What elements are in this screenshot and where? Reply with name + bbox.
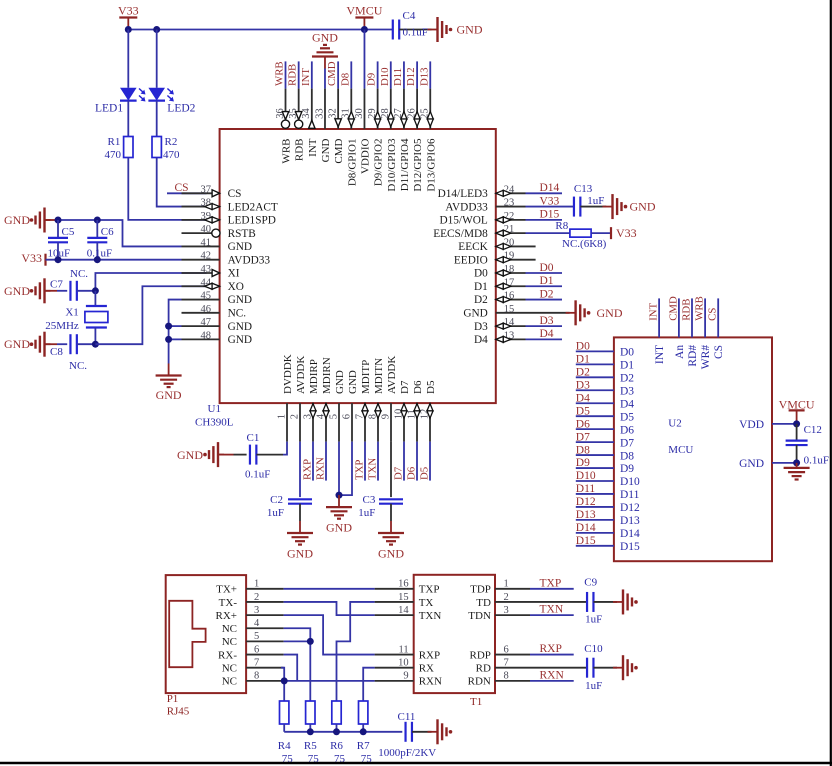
wire termination bus to C11: [284, 731, 402, 733]
svg-text:D9: D9: [366, 73, 378, 86]
svg-text:RJ45: RJ45: [167, 706, 190, 718]
svg-text:2: 2: [289, 414, 300, 419]
connector P1 RJ45 body: [166, 575, 246, 717]
svg-text:0.1uF: 0.1uF: [245, 469, 270, 481]
junction pin5/6 gnd: [336, 492, 343, 499]
svg-text:GND: GND: [287, 547, 313, 561]
svg-text:RX-: RX-: [218, 649, 237, 661]
junction pin47 gnd: [165, 323, 172, 330]
svg-text:LED1SPD: LED1SPD: [228, 215, 276, 227]
svg-text:RXP: RXP: [540, 643, 562, 655]
svg-text:RDP: RDP: [469, 649, 490, 661]
svg-text:D12: D12: [576, 496, 596, 508]
svg-text:C13: C13: [574, 183, 593, 195]
svg-text:0.1uF: 0.1uF: [403, 27, 428, 39]
svg-text:TXN: TXN: [419, 610, 442, 622]
node D7 (net label bottom): [392, 442, 404, 481]
node RXN (T1 out): [530, 669, 574, 681]
wire pin5 pin6 to GND: [339, 442, 352, 496]
node D5 (net label bottom): [418, 442, 430, 481]
ground GND (C12): [784, 463, 810, 480]
resistor R7: [357, 701, 372, 765]
svg-text:470: 470: [105, 149, 122, 161]
svg-text:RDB: RDB: [287, 64, 299, 86]
LED LED2: [148, 88, 195, 115]
junction VMCU/VDDIO: [361, 26, 368, 33]
junction U2 GND: [793, 459, 800, 466]
T1 right pin numbers: [504, 579, 509, 682]
wire RX+ to T1.11: [284, 615, 375, 654]
svg-text:NC: NC: [222, 663, 237, 675]
svg-text:D2: D2: [576, 367, 590, 379]
ground GND (right of C4): [428, 17, 483, 42]
U2 top pin names INT An RD# WR# CS: [654, 345, 725, 370]
svg-text:TDN: TDN: [468, 610, 491, 622]
LED LED1: [95, 88, 146, 115]
svg-text:NC.(6K8): NC.(6K8): [562, 238, 607, 250]
svg-text:TXP: TXP: [353, 460, 365, 480]
svg-text:D9: D9: [576, 457, 590, 469]
svg-text:LED2ACT: LED2ACT: [228, 201, 278, 213]
svg-text:C11: C11: [398, 711, 416, 723]
node D4 (net label right): [526, 328, 563, 340]
junction U2 VDD: [793, 420, 800, 427]
junction V33/LED1: [125, 26, 132, 33]
svg-text:32: 32: [327, 108, 338, 119]
svg-text:D13/GPIO6: D13/GPIO6: [425, 138, 437, 192]
ground GND (C10): [613, 655, 638, 680]
svg-text:D10/GPIO3: D10/GPIO3: [386, 138, 398, 192]
U1 right pin glyphs: [496, 190, 511, 342]
wire C8/X1 to pin44 XO: [95, 286, 206, 344]
svg-text:R7: R7: [357, 740, 370, 752]
svg-text:V33: V33: [118, 4, 139, 18]
svg-text:CH390L: CH390L: [195, 417, 234, 429]
MCU U2 body: [614, 337, 772, 561]
svg-text:T1: T1: [470, 696, 482, 708]
svg-text:D6: D6: [412, 380, 424, 394]
junction C6 bottom: [94, 256, 101, 263]
wire TX+ to T1.16: [284, 588, 375, 590]
junction C5 bottom: [55, 256, 62, 263]
power symbol V33 (R8): [611, 226, 637, 240]
svg-text:D15/WOL: D15/WOL: [439, 215, 487, 227]
node D14 (net label): [526, 182, 563, 194]
junction X1 top: [92, 287, 99, 294]
svg-text:D4: D4: [474, 334, 488, 346]
T1 right pin stubs: [495, 589, 530, 681]
wire P1.4/P1.5 to R5: [284, 628, 311, 701]
svg-text:C7: C7: [50, 278, 63, 290]
svg-text:INT: INT: [654, 345, 666, 364]
wire T1.15 center tap to R6: [337, 602, 375, 701]
svg-text:D14: D14: [620, 528, 640, 540]
svg-text:NC: NC: [222, 623, 237, 635]
U1 left pin numbers 37-48: [201, 184, 212, 341]
svg-text:GND: GND: [326, 521, 352, 535]
wire P1.7 to R4: [281, 668, 284, 701]
resistor R6: [330, 701, 345, 765]
U1 top pin names: [281, 138, 438, 192]
svg-text:U1: U1: [208, 403, 221, 415]
svg-text:D13: D13: [620, 515, 640, 527]
node RXN (net label): [314, 442, 326, 481]
node D15 (net label): [526, 209, 563, 221]
svg-text:D2: D2: [474, 294, 488, 306]
node RXP (net label): [301, 442, 313, 481]
U2 GND pin: [739, 458, 797, 470]
svg-text:CS: CS: [707, 308, 719, 321]
svg-text:C6: C6: [101, 226, 114, 238]
junction pin48 gnd: [165, 336, 172, 343]
svg-text:D5: D5: [425, 380, 437, 394]
svg-text:CS: CS: [713, 345, 725, 359]
svg-text:WRB: WRB: [274, 61, 286, 86]
P1 pin numbers 1-8: [254, 579, 260, 682]
T1 left pin names: [419, 584, 442, 688]
svg-text:C9: C9: [584, 576, 597, 588]
svg-text:D7: D7: [576, 431, 590, 443]
svg-text:RX+: RX+: [216, 610, 237, 622]
svg-text:V33: V33: [616, 226, 637, 240]
svg-text:GND: GND: [4, 284, 30, 298]
svg-text:EECK: EECK: [458, 241, 488, 253]
wire V33/VMCU rail: [128, 29, 392, 31]
svg-text:RDB: RDB: [294, 139, 306, 162]
node TXP (net label): [353, 442, 365, 481]
svg-text:WRB: WRB: [281, 139, 293, 164]
svg-text:GND: GND: [597, 306, 623, 320]
svg-text:RXN: RXN: [540, 669, 565, 681]
P1 pin stubs: [246, 589, 284, 681]
svg-text:D13: D13: [418, 67, 430, 86]
sheet border right: [830, 0, 832, 766]
ground GND (C3): [378, 521, 404, 561]
svg-text:RSTB: RSTB: [228, 228, 256, 240]
capacitor C4: [393, 10, 432, 40]
svg-text:D11: D11: [620, 489, 640, 501]
wire TX- to T1.14: [284, 602, 375, 615]
junction LED2: [153, 26, 160, 33]
power symbol V33 (top): [118, 4, 139, 30]
junction R6 bottom: [333, 728, 340, 735]
svg-text:RXP: RXP: [301, 459, 313, 480]
U2 VDD pin: [739, 419, 797, 431]
svg-text:TXN: TXN: [366, 458, 378, 480]
svg-text:D4: D4: [576, 392, 590, 404]
ground GND (C1): [177, 442, 224, 467]
svg-text:R5: R5: [304, 740, 317, 752]
svg-text:D4: D4: [620, 398, 634, 410]
svg-text:GND: GND: [156, 388, 182, 402]
svg-text:LED2: LED2: [167, 103, 195, 115]
svg-text:TXN: TXN: [540, 604, 564, 616]
svg-text:D7: D7: [399, 380, 411, 394]
U1 top net labels WRB RDB INT CMD D8 D9 D10 D11 D12 D13: [274, 61, 431, 86]
wire R2 to pin38: [157, 158, 207, 207]
svg-text:RXP: RXP: [419, 649, 440, 661]
svg-text:GND: GND: [4, 337, 30, 351]
svg-text:CS: CS: [228, 188, 242, 200]
svg-text:D5: D5: [576, 405, 590, 417]
wire pin1 DVDDK to C1: [283, 442, 287, 455]
node D3 (net label right): [526, 315, 563, 327]
svg-text:D7: D7: [620, 437, 634, 449]
svg-text:R2: R2: [165, 136, 178, 148]
svg-text:INT: INT: [307, 138, 319, 157]
svg-text:D14: D14: [540, 182, 560, 194]
capacitor C8: [45, 334, 96, 372]
svg-text:D12: D12: [405, 67, 417, 86]
svg-text:25MHz: 25MHz: [45, 320, 79, 332]
svg-text:DVDDK: DVDDK: [282, 354, 294, 394]
wire P1.8 to T1.9 RXN bus: [281, 680, 374, 682]
svg-text:C12: C12: [804, 424, 822, 436]
svg-text:D14: D14: [576, 522, 596, 534]
svg-text:WRB: WRB: [694, 296, 706, 321]
U1 bottom pin stubs: [287, 403, 430, 442]
U2 top net labels INT CMD RDB WRB CS: [648, 296, 719, 321]
svg-text:D8/GPIO1: D8/GPIO1: [346, 139, 358, 187]
svg-text:TX-: TX-: [219, 597, 238, 609]
U1 bottom pin glyphs: [310, 404, 433, 419]
svg-text:C4: C4: [403, 10, 416, 22]
node D1 (net label right): [526, 275, 563, 287]
svg-text:D11/GPIO4: D11/GPIO4: [399, 138, 411, 191]
ground GND (below U1 left): [156, 364, 182, 403]
svg-text:5: 5: [328, 414, 339, 419]
svg-text:CMD: CMD: [333, 138, 345, 163]
svg-text:AVDD33: AVDD33: [445, 201, 488, 213]
capacitor C9: [495, 576, 617, 625]
svg-text:D10: D10: [620, 476, 640, 488]
svg-text:9: 9: [380, 414, 391, 419]
svg-text:C8: C8: [50, 346, 63, 358]
svg-text:NC: NC: [222, 676, 237, 688]
U1 right pin numbers 24-13: [504, 184, 515, 341]
capacitor C5: [48, 220, 75, 260]
resistor R8: [526, 220, 612, 250]
svg-text:RD#: RD#: [687, 345, 699, 367]
wire LED2 anode: [156, 30, 158, 88]
svg-text:MDITP: MDITP: [360, 360, 372, 394]
junction C6 top: [94, 217, 101, 224]
svg-text:C5: C5: [62, 226, 75, 238]
svg-text:D6: D6: [576, 418, 590, 430]
svg-text:D3: D3: [540, 315, 554, 327]
capacitor C13: [526, 183, 607, 217]
svg-text:D8: D8: [620, 450, 634, 462]
power symbol VMCU (top): [346, 4, 382, 30]
svg-text:470: 470: [163, 149, 180, 161]
svg-text:X1: X1: [65, 307, 78, 319]
ground GND (C8): [4, 332, 51, 357]
wire pin15 to GND: [526, 312, 570, 314]
svg-text:TD: TD: [476, 597, 491, 609]
svg-text:R6: R6: [330, 740, 343, 752]
node TXN (net label): [366, 442, 378, 481]
svg-text:D3: D3: [576, 379, 590, 391]
op-amp U1 CH390L body: [195, 129, 496, 429]
power symbol VMCU (U2): [779, 398, 815, 424]
svg-text:RD: RD: [476, 663, 491, 675]
svg-text:C3: C3: [363, 494, 376, 506]
svg-text:CMD: CMD: [667, 296, 679, 321]
svg-text:MDITN: MDITN: [373, 358, 385, 394]
node D0 (net label right): [526, 262, 563, 274]
U1 left pin glyphs: [205, 190, 220, 289]
junction R7 bottom: [360, 728, 367, 735]
svg-text:NC: NC: [222, 636, 237, 648]
svg-text:D3: D3: [620, 385, 634, 397]
node TXN (T1 out): [530, 604, 574, 616]
svg-text:D10: D10: [379, 67, 391, 86]
svg-text:D2: D2: [620, 373, 634, 385]
svg-text:XI: XI: [228, 268, 240, 280]
wire C7/X1 to pin43 XI: [95, 273, 206, 291]
svg-text:GND: GND: [739, 458, 764, 470]
svg-text:R4: R4: [278, 740, 291, 752]
svg-text:GND: GND: [312, 31, 338, 45]
capacitor C6: [87, 220, 114, 260]
capacitor C2: [267, 442, 312, 521]
node RXP (T1 out): [530, 643, 574, 655]
svg-text:INT: INT: [300, 68, 312, 86]
svg-text:C10: C10: [584, 643, 603, 655]
svg-text:XO: XO: [228, 281, 244, 293]
svg-text:GND: GND: [347, 370, 359, 394]
ground GND (C5/C6): [4, 208, 51, 233]
svg-text:34: 34: [301, 108, 312, 119]
svg-text:D7: D7: [392, 466, 404, 480]
svg-text:GND: GND: [228, 294, 252, 306]
svg-text:WR#: WR#: [700, 345, 712, 370]
svg-text:1: 1: [276, 414, 287, 419]
svg-text:GND: GND: [177, 448, 203, 462]
ground GND (C13): [603, 194, 656, 219]
ground GND (U1 pins 5/6): [326, 495, 352, 534]
svg-text:RDN: RDN: [468, 676, 491, 688]
svg-text:D0: D0: [620, 347, 634, 359]
svg-text:0.1uF: 0.1uF: [804, 455, 829, 467]
svg-text:AVDDK: AVDDK: [295, 356, 307, 394]
svg-text:1uF: 1uF: [587, 195, 604, 207]
svg-text:6: 6: [341, 414, 352, 419]
svg-text:TXP: TXP: [540, 577, 562, 589]
junction P1.4/P1.5: [307, 638, 314, 645]
svg-text:D14/LED3: D14/LED3: [438, 188, 489, 200]
U2 top pin wires: [659, 298, 718, 337]
svg-text:EECS/MD8: EECS/MD8: [433, 228, 488, 240]
crystal X1: [45, 291, 108, 344]
svg-text:GND: GND: [457, 23, 483, 37]
svg-text:1uF: 1uF: [267, 507, 284, 519]
svg-text:R1: R1: [108, 136, 121, 148]
svg-text:D3: D3: [474, 321, 488, 333]
svg-text:D8: D8: [339, 73, 351, 86]
resistor R5: [304, 701, 319, 765]
svg-text:VMCU: VMCU: [346, 4, 382, 18]
svg-text:V33: V33: [21, 251, 42, 265]
svg-text:TDP: TDP: [470, 584, 491, 596]
svg-text:INT: INT: [648, 302, 660, 320]
svg-text:C2: C2: [270, 494, 283, 506]
ground GND (above U1 pin33): [312, 31, 338, 130]
U1 left pin stubs: [182, 193, 220, 339]
U1 left pin names: [228, 188, 278, 346]
U2 left pin stubs: [576, 351, 614, 545]
node TXP (T1 out): [530, 577, 574, 589]
svg-text:GND: GND: [378, 547, 404, 561]
node CS (net label): [167, 182, 207, 194]
svg-text:NC.: NC.: [70, 268, 88, 280]
svg-text:D5: D5: [620, 411, 634, 423]
junction C5 top: [55, 217, 62, 224]
svg-text:30: 30: [354, 108, 365, 119]
node D6 (net label bottom): [405, 442, 417, 481]
svg-text:D15: D15: [620, 541, 640, 553]
ground GND (C7): [4, 278, 51, 303]
svg-text:TX+: TX+: [216, 584, 237, 596]
svg-text:VDD: VDD: [739, 419, 764, 431]
ground GND (C9): [613, 589, 638, 614]
svg-text:GND: GND: [4, 213, 30, 227]
svg-text:AVDDK: AVDDK: [386, 356, 398, 394]
svg-text:D1: D1: [620, 360, 634, 372]
svg-text:D1: D1: [474, 281, 488, 293]
svg-text:RX: RX: [419, 663, 434, 675]
U1 top pin stubs: [286, 61, 431, 129]
transformer T1 body: [414, 575, 495, 708]
svg-text:1uF: 1uF: [585, 613, 602, 625]
capacitor C1: [218, 432, 283, 481]
svg-text:1uF: 1uF: [358, 507, 375, 519]
svg-text:MDIRN: MDIRN: [321, 357, 333, 394]
svg-text:GND: GND: [320, 138, 332, 162]
svg-text:D4: D4: [540, 328, 554, 340]
svg-text:NC.: NC.: [69, 360, 87, 372]
svg-text:1uF: 1uF: [585, 680, 602, 692]
svg-text:D0: D0: [540, 262, 554, 274]
svg-text:P1: P1: [167, 693, 179, 705]
resistor R1: [105, 136, 134, 161]
junction X1 bottom: [92, 341, 99, 348]
svg-text:GND: GND: [228, 321, 252, 333]
svg-text:D6: D6: [405, 466, 417, 480]
junction R5 bottom: [307, 728, 314, 735]
svg-text:D5: D5: [418, 467, 430, 480]
T1 left pin stubs: [375, 589, 414, 681]
svg-text:U2: U2: [668, 418, 681, 430]
U1 top pin numbers 36-25: [275, 108, 431, 119]
svg-text:D11: D11: [392, 68, 404, 86]
svg-text:GND: GND: [463, 308, 487, 320]
wire pins 45/47/48 ground bus: [169, 300, 182, 364]
resistor R4: [278, 701, 293, 765]
svg-text:An: An: [674, 345, 686, 359]
svg-text:D12: D12: [620, 502, 640, 514]
resistor R2: [152, 136, 180, 161]
sheet border bottom: [0, 762, 832, 764]
svg-text:GND: GND: [228, 241, 252, 253]
junction P1.7/P1.8/R4: [281, 677, 288, 684]
svg-text:D2: D2: [540, 288, 554, 300]
svg-text:D1: D1: [576, 354, 590, 366]
svg-text:LED1: LED1: [95, 103, 123, 115]
capacitor C7: [45, 268, 96, 301]
T1 right pin names: [468, 584, 491, 688]
svg-text:RXN: RXN: [419, 676, 442, 688]
